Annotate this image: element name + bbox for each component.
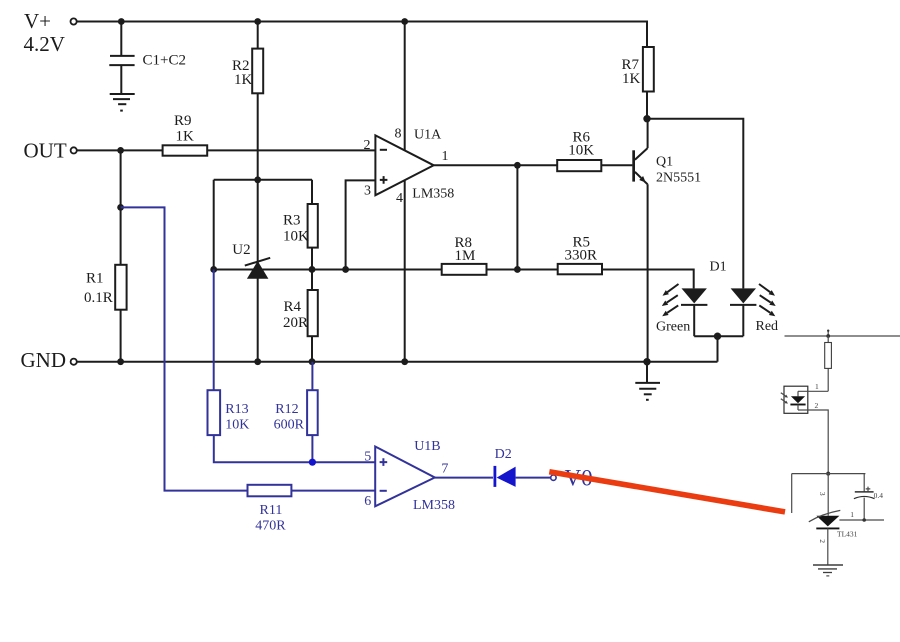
wire U1A output <box>434 164 633 166</box>
transistor Q1 <box>632 148 647 184</box>
wire Q1 emitter <box>647 184 649 361</box>
resistor R4 <box>308 290 318 336</box>
wire R2 branch <box>257 22 259 49</box>
ground C1 <box>110 94 135 111</box>
svg-text:1K: 1K <box>622 71 641 87</box>
wire cathode to GND rail <box>717 336 719 362</box>
svg-text:0.1R: 0.1R <box>84 290 113 306</box>
wire aux left drop <box>791 474 793 513</box>
node aux mid <box>826 472 830 476</box>
wire fb vertical <box>516 165 518 269</box>
svg-text:C1+C2: C1+C2 <box>143 53 186 69</box>
svg-text:1: 1 <box>442 149 449 164</box>
wire OUT to pin2 <box>77 149 375 151</box>
terminal OUT <box>71 147 77 153</box>
wire R4 branch <box>311 269 313 361</box>
svg-text:LM358: LM358 <box>413 498 455 513</box>
node GND-Q1 <box>643 358 650 365</box>
svg-text:3: 3 <box>364 183 371 198</box>
wire mid rail <box>214 269 694 288</box>
svg-text:4.2V: 4.2V <box>24 32 65 56</box>
svg-text:D2: D2 <box>495 447 512 462</box>
wire pin3 branch <box>346 180 376 269</box>
resistor R7 <box>643 47 654 92</box>
svg-text:LM358: LM358 <box>412 186 454 201</box>
svg-text:1K: 1K <box>176 128 195 144</box>
resistor R1 <box>115 265 126 310</box>
capacitor C1+C2 <box>109 22 134 94</box>
wire GND rail <box>77 361 718 363</box>
svg-text:6: 6 <box>364 494 371 509</box>
node ref-cap <box>862 518 866 522</box>
wire U2 left branch <box>213 180 215 270</box>
TL431 U4 <box>809 510 841 528</box>
aux rail tick <box>827 331 829 336</box>
terminal GND <box>71 359 77 365</box>
node top-R2 <box>254 18 261 25</box>
green light arrows <box>662 284 679 316</box>
svg-text:8: 8 <box>395 126 402 141</box>
optocoupler input arrows <box>781 393 788 404</box>
wire R12 lower <box>311 362 313 391</box>
resistor R13 <box>208 390 221 435</box>
wire TL431 cathode <box>827 474 829 516</box>
svg-text:R1: R1 <box>86 271 104 287</box>
LED D1 red <box>730 288 756 336</box>
resistor R2 <box>252 49 263 94</box>
wire R13 to pin5 <box>214 435 375 462</box>
wire U1B output <box>435 477 493 479</box>
svg-text:U1B: U1B <box>414 439 440 454</box>
node OUT-R1 <box>117 147 124 154</box>
resistor R5 <box>558 264 602 274</box>
aux rail node <box>826 334 830 338</box>
wire sense blue loop <box>121 207 248 490</box>
wire aux node horizontal <box>792 473 866 475</box>
resistor R3 <box>308 204 318 248</box>
node collector <box>643 115 650 122</box>
wire TL431 anode <box>827 528 829 565</box>
svg-text:10K: 10K <box>283 229 309 245</box>
svg-text:D1: D1 <box>710 260 727 275</box>
svg-text:1K: 1K <box>234 72 253 88</box>
node fb <box>514 266 521 273</box>
svg-text:330R: 330R <box>565 248 598 264</box>
optocoupler LED <box>790 391 805 410</box>
svg-text:R13: R13 <box>225 402 248 417</box>
svg-text:OUT: OUT <box>24 139 67 163</box>
svg-text:U1A: U1A <box>414 127 442 142</box>
node output-fb <box>514 162 521 169</box>
resistor R9 <box>163 145 208 155</box>
node R2-zener <box>254 176 261 183</box>
svg-text:1M: 1M <box>455 248 476 264</box>
capacitor aux <box>854 492 875 520</box>
aux tick dot <box>827 330 829 332</box>
wire top rail <box>77 22 647 48</box>
svg-text:1: 1 <box>850 510 854 519</box>
node top-C1 <box>118 18 125 25</box>
diode D2 <box>495 466 551 487</box>
node GND-R4 <box>309 358 316 365</box>
node R3-R4 <box>309 266 316 273</box>
wire R2 to zener node <box>257 93 259 361</box>
resistor R8 <box>442 264 487 275</box>
wire Q1 collector <box>647 119 649 148</box>
node cathode <box>714 333 721 340</box>
op-amp U1B <box>375 447 435 507</box>
svg-text:7: 7 <box>441 461 448 476</box>
svg-text:2: 2 <box>815 401 819 410</box>
node GND-R1 <box>117 358 124 365</box>
node GND-U2 <box>254 358 261 365</box>
terminal V0 <box>551 475 556 480</box>
wire aux cap drop <box>863 474 865 492</box>
wire R3 branch <box>311 180 313 270</box>
svg-text:2: 2 <box>364 138 371 153</box>
resistor R11 <box>248 485 292 497</box>
svg-text:Red: Red <box>756 319 779 334</box>
svg-text:20R: 20R <box>283 315 308 331</box>
svg-text:TL431: TL431 <box>837 530 858 539</box>
node top-pin8 <box>401 18 408 25</box>
aux rail <box>785 335 900 337</box>
svg-text:4: 4 <box>396 191 403 206</box>
wire cathode join <box>694 335 743 337</box>
svg-text:10K: 10K <box>568 142 594 158</box>
ground main <box>635 362 660 400</box>
svg-text:Green: Green <box>656 319 690 334</box>
wire opto pin1 <box>798 390 828 392</box>
LED D1 green <box>681 288 707 336</box>
svg-text:600R: 600R <box>274 418 305 433</box>
svg-text:Q1: Q1 <box>656 155 673 170</box>
aux resistor wires <box>827 336 829 391</box>
wire zener node segment <box>214 179 312 181</box>
resistor R6 <box>557 160 601 171</box>
wire ref blue to R13 <box>213 269 215 390</box>
svg-text:5: 5 <box>364 450 371 465</box>
wire TL431 ref <box>839 519 884 521</box>
node pin3 <box>342 266 349 273</box>
svg-text:R9: R9 <box>174 113 192 129</box>
svg-text:3: 3 <box>818 492 827 496</box>
node ref tap <box>210 266 217 273</box>
resistor aux <box>825 343 832 369</box>
capacitor aux plus <box>866 487 871 492</box>
wire R12 to pin5 <box>311 435 313 462</box>
node sense tap <box>117 204 124 211</box>
optocoupler box <box>784 386 808 413</box>
resistor R12 <box>307 390 318 435</box>
svg-text:2N5551: 2N5551 <box>656 171 701 186</box>
wire R7 to collector node <box>646 92 648 119</box>
svg-text:GND: GND <box>21 348 67 372</box>
svg-text:V+: V+ <box>24 9 51 33</box>
svg-text:2: 2 <box>818 539 827 543</box>
annotation red pointer <box>549 472 785 512</box>
node pin5 blue <box>309 459 316 466</box>
wire R1 branch <box>120 150 122 361</box>
svg-text:470R: 470R <box>255 518 286 533</box>
svg-text:R12: R12 <box>275 402 298 417</box>
op-amp U1A <box>375 135 433 195</box>
zener U2 <box>245 258 270 279</box>
svg-text:R3: R3 <box>283 213 301 229</box>
svg-text:U2: U2 <box>232 242 250 258</box>
red light arrows <box>759 284 776 316</box>
terminal V+ <box>71 18 77 24</box>
svg-text:1: 1 <box>815 382 819 391</box>
node GND-pin4 <box>401 358 408 365</box>
svg-text:0.4: 0.4 <box>874 491 884 500</box>
wire opto pin2 <box>798 410 828 474</box>
svg-text:10K: 10K <box>225 418 249 433</box>
svg-text:R11: R11 <box>260 503 283 518</box>
ground aux <box>813 565 843 576</box>
svg-text:R4: R4 <box>284 299 302 315</box>
wire pin8 <box>404 22 406 153</box>
wire pin4 <box>404 179 406 362</box>
wire collector to red LED <box>647 119 743 289</box>
wire R11 to pin6 <box>291 490 375 492</box>
